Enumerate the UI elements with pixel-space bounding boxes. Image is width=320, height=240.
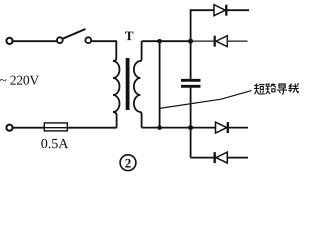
diode (row 4, pointing left) xyxy=(214,152,216,163)
switch S blade xyxy=(63,29,86,39)
diode (row 2, pointing left) xyxy=(214,36,216,47)
fuse 0.5A xyxy=(44,123,67,131)
switch S throw xyxy=(85,37,91,43)
diode (row 1, pointing right) xyxy=(214,5,225,16)
wire (secondary bottom rail, row 3) xyxy=(142,127,248,129)
wire (row 4) xyxy=(191,157,248,159)
label 0.5A xyxy=(41,139,68,149)
node (junction, bottom wire / bus) xyxy=(188,125,193,130)
glyph 导 xyxy=(277,84,286,94)
wire xyxy=(13,40,56,42)
wire (row2 grey left segment) xyxy=(191,40,214,42)
short-circuit wire (vertical) xyxy=(159,41,161,127)
transformer primary winding xyxy=(113,41,120,128)
node (junction, top wire / bus) xyxy=(188,39,193,44)
annotation leader line xyxy=(160,91,252,109)
wire xyxy=(91,40,117,42)
terminal (bottom input) xyxy=(6,125,12,131)
figure number 2 (circled) xyxy=(120,155,136,171)
glyph 短 xyxy=(254,84,264,94)
bus wire upper (to row 1) xyxy=(191,10,249,79)
wire (row2 grey right segment) xyxy=(227,40,247,42)
bus wire lower (through rows 3,4) xyxy=(190,88,192,158)
capacitor xyxy=(181,79,201,82)
glyph 路 xyxy=(266,84,276,94)
label T xyxy=(125,32,133,41)
transformer core xyxy=(126,58,130,110)
terminal (top input) xyxy=(6,38,12,44)
node (junction, bottom wire / short wire) xyxy=(157,125,162,130)
transformer secondary winding xyxy=(134,41,142,127)
switch S pole xyxy=(57,37,63,43)
diode (row 3, pointing right) xyxy=(216,122,227,133)
label ~ 220V xyxy=(0,76,39,85)
node (junction, top wire / short wire) xyxy=(157,39,162,44)
wire (bottom-left rail through fuse) xyxy=(13,127,116,129)
label 短路导线 (hand-drawn glyphs) xyxy=(254,84,298,94)
wire (secondary top rail) xyxy=(142,40,192,42)
glyph 线 xyxy=(289,84,299,93)
